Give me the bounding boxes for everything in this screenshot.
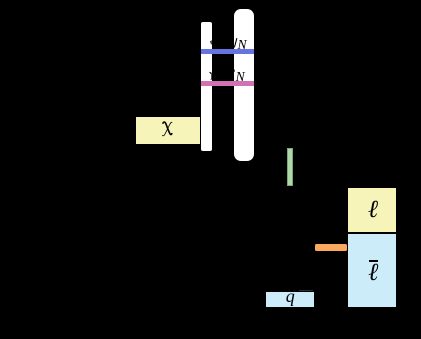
quark box label q <box>266 287 314 305</box>
label fragment chi left tip (row 2, on left bar right edge) <box>209 71 213 81</box>
detector bar (left white column) <box>201 22 212 151</box>
antilepton label ell-bar <box>348 261 398 286</box>
label N (row 1, on right capsule) <box>238 38 247 52</box>
label fragment prime stroke (row 1, on right capsule left edge) <box>233 37 238 49</box>
antilepton overline <box>369 260 378 262</box>
level band (pink) <box>201 81 254 86</box>
faint dark wire stub above quark box <box>299 290 314 291</box>
green bar <box>287 148 294 186</box>
lepton box (yellow, ell) <box>347 187 396 234</box>
quark box (light blue) <box>266 292 314 307</box>
chi box (yellow) <box>135 116 201 145</box>
label N (row 2, on right capsule) <box>236 70 245 84</box>
lepton box label ell <box>348 198 397 223</box>
orange bar <box>315 244 347 251</box>
label fragment chi tip (row 1, on left bar right edge) <box>209 39 213 46</box>
detector bar (right white capsule column) <box>234 9 254 162</box>
chi box label <box>162 121 173 137</box>
level band (blue) <box>201 49 254 54</box>
antilepton box (light blue, ell-bar) <box>347 233 397 308</box>
label fragment superscript 0 right half (row 2, on right capsule left edge) <box>233 69 236 74</box>
